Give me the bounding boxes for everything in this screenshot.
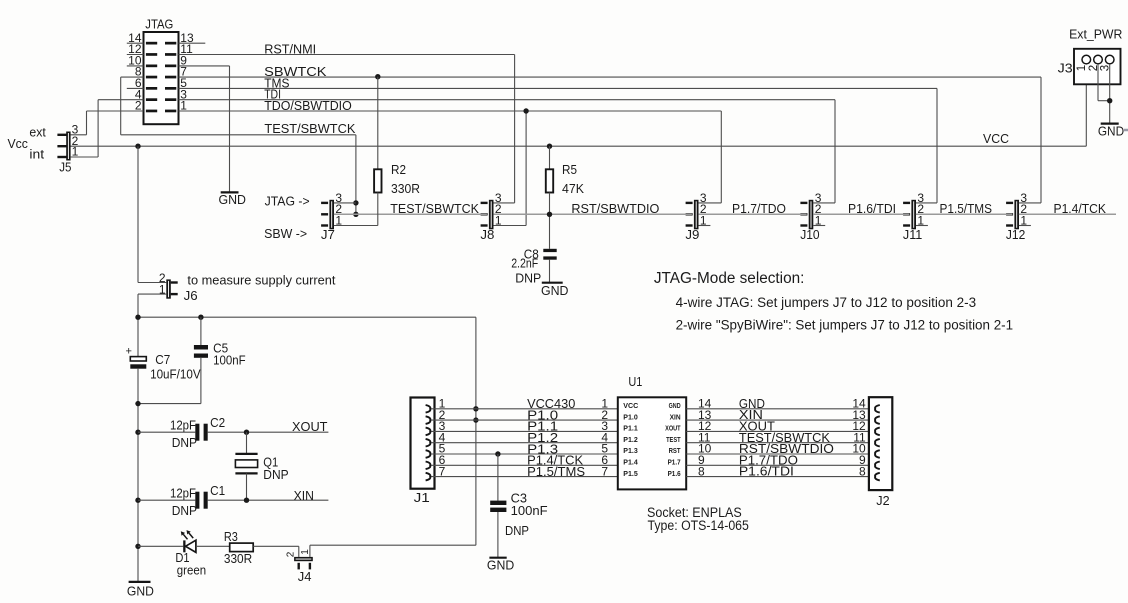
svg-text:J9: J9 xyxy=(685,227,699,242)
svg-text:GND: GND xyxy=(487,558,514,573)
svg-text:XOUT: XOUT xyxy=(292,419,328,434)
svg-text:P1.4/TCK: P1.4/TCK xyxy=(1054,201,1107,216)
svg-text:10uF/10V: 10uF/10V xyxy=(150,366,201,381)
svg-text:P1.5/TMS: P1.5/TMS xyxy=(527,464,585,479)
svg-text:DNP: DNP xyxy=(263,467,288,482)
svg-text:U1: U1 xyxy=(628,374,642,389)
svg-text:12pF: 12pF xyxy=(170,418,196,433)
svg-text:TDO/SBWTDIO: TDO/SBWTDIO xyxy=(264,98,352,113)
svg-text:330R: 330R xyxy=(224,551,252,566)
svg-text:P1.2: P1.2 xyxy=(623,435,638,444)
svg-text:ext: ext xyxy=(29,124,46,139)
svg-text:3: 3 xyxy=(1100,65,1112,71)
svg-text:12pF: 12pF xyxy=(170,486,196,501)
svg-text:P1.3: P1.3 xyxy=(623,446,638,455)
svg-text:SBW ->: SBW -> xyxy=(264,226,307,241)
svg-text:R2: R2 xyxy=(391,162,406,177)
svg-text:J7: J7 xyxy=(321,227,335,242)
svg-text:GND: GND xyxy=(127,583,154,598)
svg-text:JTAG: JTAG xyxy=(145,17,173,32)
svg-text:RST: RST xyxy=(669,446,681,455)
svg-text:2: 2 xyxy=(285,551,296,557)
svg-text:GND: GND xyxy=(1098,123,1124,138)
svg-text:330R: 330R xyxy=(391,181,420,196)
svg-text:P1.7/TDO: P1.7/TDO xyxy=(732,201,786,216)
svg-text:J4: J4 xyxy=(298,569,312,584)
svg-text:J11: J11 xyxy=(903,227,922,242)
svg-text:J10: J10 xyxy=(800,227,819,242)
svg-text:P1.1: P1.1 xyxy=(623,424,638,433)
svg-text:P1.4: P1.4 xyxy=(623,458,638,467)
svg-text:P1.6/TDI: P1.6/TDI xyxy=(739,464,794,479)
svg-text:Vcc: Vcc xyxy=(8,136,29,151)
svg-text:DNP: DNP xyxy=(515,271,541,286)
svg-text:TEST/SBWTCK: TEST/SBWTCK xyxy=(390,201,479,216)
svg-text:1: 1 xyxy=(159,283,166,297)
svg-text:C1: C1 xyxy=(210,483,225,498)
svg-text:to measure supply current: to measure supply current xyxy=(187,272,335,287)
svg-text:7: 7 xyxy=(439,464,446,478)
svg-text:P1.0: P1.0 xyxy=(623,412,638,421)
svg-text:green: green xyxy=(177,563,206,578)
svg-text:XIN: XIN xyxy=(294,488,314,503)
svg-text:DNP: DNP xyxy=(172,435,197,450)
svg-text:100nF: 100nF xyxy=(511,503,548,518)
svg-text:+: + xyxy=(126,346,132,358)
svg-text:P1.7: P1.7 xyxy=(668,458,681,467)
svg-text:int: int xyxy=(29,146,44,161)
svg-text:2: 2 xyxy=(1088,65,1100,71)
svg-text:DNP: DNP xyxy=(172,503,197,518)
svg-text:R5: R5 xyxy=(562,162,577,177)
svg-text:J6: J6 xyxy=(184,288,198,303)
svg-text:VCC: VCC xyxy=(983,131,1009,146)
svg-text:J2: J2 xyxy=(876,493,889,508)
svg-text:GND: GND xyxy=(541,283,569,298)
svg-text:VCC: VCC xyxy=(623,401,639,410)
svg-text:8: 8 xyxy=(859,464,866,478)
svg-text:2: 2 xyxy=(135,99,142,113)
svg-text:P1.5: P1.5 xyxy=(623,469,638,478)
svg-text:Type: OTS-14-065: Type: OTS-14-065 xyxy=(648,518,749,533)
svg-text:7: 7 xyxy=(601,464,608,478)
svg-text:C2: C2 xyxy=(210,415,225,430)
svg-text:100nF: 100nF xyxy=(213,352,246,367)
svg-text:C7: C7 xyxy=(155,352,170,367)
svg-text:P1.6/TDI: P1.6/TDI xyxy=(848,201,896,216)
svg-text:J12: J12 xyxy=(1006,227,1025,242)
svg-text:J3: J3 xyxy=(1058,61,1073,76)
svg-text:RST/SBWTDIO: RST/SBWTDIO xyxy=(571,201,659,216)
svg-text:R3: R3 xyxy=(224,529,238,544)
svg-text:GND: GND xyxy=(219,192,247,207)
svg-text:DNP: DNP xyxy=(505,523,529,538)
svg-text:2.2nF: 2.2nF xyxy=(511,256,538,271)
svg-text:2-wire "SpyBiWire": Set jumper: 2-wire "SpyBiWire": Set jumpers J7 to J1… xyxy=(676,318,1014,333)
svg-text:TEST: TEST xyxy=(666,435,681,444)
svg-text:P1.5/TMS: P1.5/TMS xyxy=(940,201,993,216)
svg-text:1: 1 xyxy=(300,549,311,555)
svg-text:4-wire JTAG: Set jumpers J7 to: 4-wire JTAG: Set jumpers J7 to J12 to po… xyxy=(676,295,977,310)
svg-text:P1.6: P1.6 xyxy=(668,469,681,478)
svg-text:J8: J8 xyxy=(480,227,494,242)
svg-text:XOUT: XOUT xyxy=(665,424,681,433)
svg-text:TEST/SBWTCK: TEST/SBWTCK xyxy=(264,121,355,136)
svg-text:47K: 47K xyxy=(562,181,584,196)
svg-text:1: 1 xyxy=(72,145,79,159)
svg-text:J1: J1 xyxy=(414,490,430,505)
svg-text:XIN: XIN xyxy=(670,412,681,421)
svg-text:1: 1 xyxy=(1076,65,1088,71)
svg-text:JTAG-Mode selection:: JTAG-Mode selection: xyxy=(654,270,805,287)
svg-text:8: 8 xyxy=(698,464,705,478)
svg-text:RST/NMI: RST/NMI xyxy=(264,41,316,56)
svg-text:1: 1 xyxy=(180,99,187,113)
svg-text:J5: J5 xyxy=(59,160,71,175)
svg-text:GND: GND xyxy=(669,401,681,410)
svg-text:Ext_PWR: Ext_PWR xyxy=(1069,26,1122,41)
svg-text:JTAG ->: JTAG -> xyxy=(265,193,310,208)
